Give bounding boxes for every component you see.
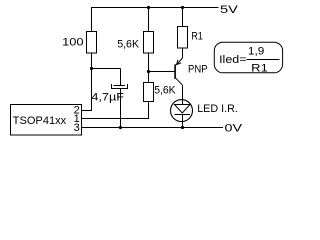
resistor 100: [87, 32, 97, 54]
svg-text:100: 100: [62, 37, 84, 49]
LED D1 cathode bar: [175, 114, 191, 116]
svg-text:4,7µF: 4,7µF: [91, 91, 124, 103]
wire 5V rail: [91, 7, 219, 9]
label PNP: [188, 64, 208, 76]
label TSOP41xx: [13, 115, 67, 127]
junction dot at capacitor branch: [90, 67, 93, 70]
svg-text:5,6K: 5,6K: [154, 85, 176, 97]
svg-text:3: 3: [74, 122, 80, 134]
IC U1 TSOP41xx box: [11, 105, 82, 136]
wire bottom lead of 5,6K second to TSOP pin 1: [82, 102, 149, 119]
formula text Iled=: [219, 54, 246, 66]
transistor Q1 PNP emitter arrowhead: [177, 60, 182, 65]
wire branch to capacitor: [92, 68, 121, 70]
svg-text:1,9: 1,9: [248, 46, 264, 58]
svg-text:5V: 5V: [220, 4, 239, 16]
junction dot LED to 0V: [181, 126, 184, 129]
wire R1 bottom lead to emitter: [182, 48, 184, 58]
node 0V label: [225, 122, 243, 134]
capacitor C1 4,7uF top plate (flat bar): [114, 85, 126, 87]
svg-text:LED I.R.: LED I.R.: [197, 103, 238, 115]
wire collector lead to LED: [182, 86, 184, 105]
wire top lead of resistor R1: [182, 8, 184, 27]
wire capacitor bottom lead to 0V: [120, 89, 122, 128]
svg-text:Iled=: Iled=: [219, 54, 246, 66]
capacitor C1 4,7uF bottom plate (cup): [112, 84, 128, 89]
pin number 2: [74, 105, 80, 117]
resistor 5,6K second: [144, 83, 154, 102]
svg-text:5,6K: 5,6K: [117, 39, 140, 51]
transistor Q1 PNP base bar: [174, 64, 176, 79]
value label 4,7uF: [91, 91, 124, 103]
label LED I.R.: [197, 103, 238, 115]
junction dot capacitor to 0V: [119, 126, 122, 129]
value label 5,6K first: [117, 39, 140, 51]
wire LED bottom lead to 0V: [182, 115, 184, 128]
resistor 5,6K first: [144, 32, 154, 54]
wire base of transistor: [149, 71, 175, 73]
value label 5,6K second: [154, 85, 176, 97]
wire bottom lead of resistor 100 down to TSOP pin 2: [91, 53, 93, 111]
pin number 3: [74, 122, 80, 134]
value label 100: [62, 37, 84, 49]
wire capacitor top lead: [120, 69, 122, 86]
formula numerator 1,9: [248, 46, 264, 58]
node 5V label: [220, 4, 239, 16]
svg-text:R1: R1: [191, 31, 203, 43]
formula fraction bar: [247, 59, 280, 61]
wire between 5,6K resistors: [148, 53, 150, 83]
svg-text:0V: 0V: [225, 122, 243, 134]
transistor Q1 PNP collector line: [175, 78, 182, 86]
wire 0V rail from TSOP pin 3: [82, 127, 224, 129]
junction dot base branch: [147, 70, 150, 73]
LED D1 triangle anode: [175, 105, 191, 114]
formula denominator R1: [251, 62, 268, 74]
svg-text:TSOP41xx: TSOP41xx: [13, 115, 67, 127]
wire top lead of resistor 100: [91, 7, 93, 32]
reference label R1: [191, 31, 203, 43]
annotation formula box: [214, 42, 282, 73]
wire TSOP pin 2 horizontal: [82, 110, 93, 112]
wire top lead of resistor 5,6K first: [148, 8, 150, 32]
transistor Q1 PNP emitter line: [177, 58, 183, 65]
resistor R1: [178, 27, 188, 49]
svg-text:R1: R1: [251, 62, 268, 74]
junction dot top rail to 5,6K first: [147, 6, 150, 9]
LED D1 circle: [171, 100, 193, 122]
svg-text:PNP: PNP: [188, 64, 208, 76]
pin number 1: [74, 113, 80, 125]
junction dot top rail to R1: [181, 6, 184, 9]
